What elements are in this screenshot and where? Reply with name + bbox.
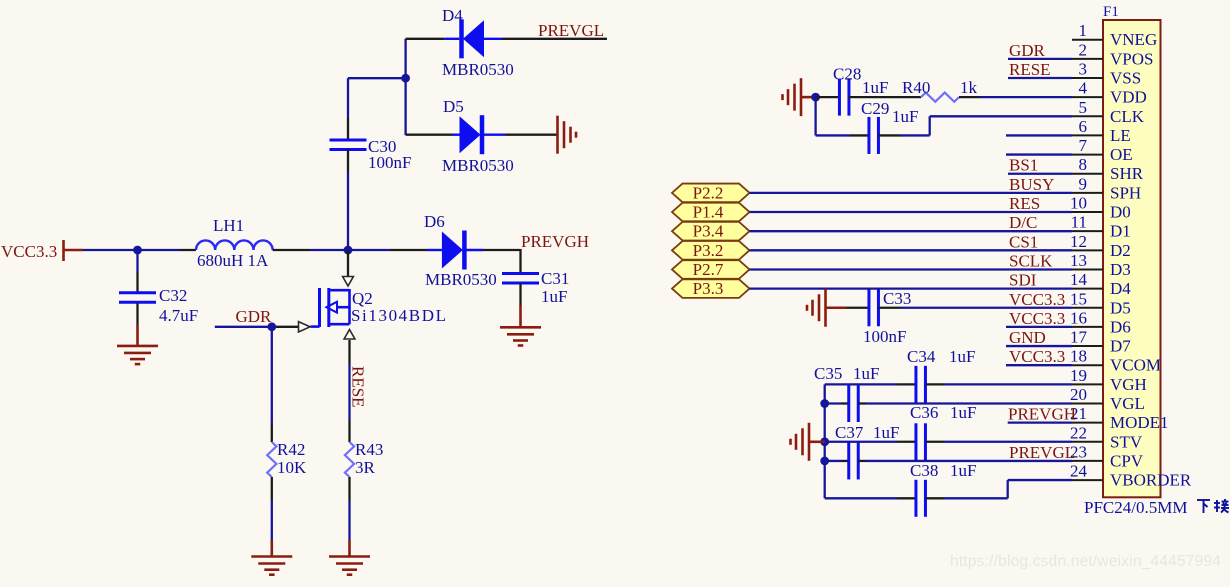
svg-text:680uH 1A: 680uH 1A <box>197 251 269 270</box>
svg-text:GDR: GDR <box>1009 41 1046 60</box>
svg-text:1uF: 1uF <box>862 78 888 97</box>
svg-text:13: 13 <box>1070 251 1087 270</box>
svg-text:24: 24 <box>1070 462 1088 481</box>
svg-text:10K: 10K <box>277 458 307 477</box>
svg-text:6: 6 <box>1079 117 1088 136</box>
svg-text:7: 7 <box>1079 136 1088 155</box>
svg-text:5: 5 <box>1079 98 1088 117</box>
svg-text:VBORDER: VBORDER <box>1110 471 1192 490</box>
svg-text:D6: D6 <box>424 212 445 231</box>
svg-text:D5: D5 <box>443 97 464 116</box>
svg-text:C29: C29 <box>861 99 889 118</box>
svg-text:LE: LE <box>1110 126 1131 145</box>
svg-text:VCC3.3: VCC3.3 <box>1009 309 1065 328</box>
svg-text:SHR: SHR <box>1110 164 1144 183</box>
svg-text:C36: C36 <box>910 403 938 422</box>
svg-text:1k: 1k <box>960 78 978 97</box>
svg-text:CLK: CLK <box>1110 107 1145 126</box>
svg-text:CS1: CS1 <box>1009 232 1038 251</box>
svg-text:VCC3.3: VCC3.3 <box>1009 290 1065 309</box>
svg-text:1uF: 1uF <box>950 403 976 422</box>
svg-text:MODE1: MODE1 <box>1110 413 1169 432</box>
svg-text:VCC3.3: VCC3.3 <box>1009 347 1065 366</box>
svg-text:MBR0530: MBR0530 <box>442 60 514 79</box>
svg-text:MBR0530: MBR0530 <box>442 156 514 175</box>
svg-text:D1: D1 <box>1110 222 1131 241</box>
svg-text:RESE: RESE <box>1009 60 1051 79</box>
svg-text:C32: C32 <box>159 286 187 305</box>
svg-text:PREVGH: PREVGH <box>521 232 589 251</box>
svg-text:D0: D0 <box>1110 203 1131 222</box>
svg-text:SDI: SDI <box>1009 271 1037 290</box>
svg-text:F1: F1 <box>1103 4 1119 20</box>
svg-text:14: 14 <box>1070 270 1088 289</box>
svg-text:C38: C38 <box>910 461 938 480</box>
svg-text:15: 15 <box>1070 289 1087 308</box>
svg-text:P3.4: P3.4 <box>693 222 724 241</box>
svg-text:4: 4 <box>1079 79 1088 98</box>
svg-text:R40: R40 <box>902 78 930 97</box>
svg-text:C33: C33 <box>883 289 911 308</box>
svg-text:C34: C34 <box>907 347 936 366</box>
svg-text:100nF: 100nF <box>368 153 411 172</box>
svg-text:1uF: 1uF <box>873 423 899 442</box>
svg-text:P1.4: P1.4 <box>693 203 724 222</box>
svg-text:D6: D6 <box>1110 317 1131 336</box>
svg-text:C31: C31 <box>541 269 569 288</box>
svg-text:VGL: VGL <box>1110 394 1145 413</box>
svg-text:SCLK: SCLK <box>1009 251 1053 270</box>
svg-text:VCC3.3: VCC3.3 <box>1 242 57 261</box>
svg-text:P2.7: P2.7 <box>693 260 724 279</box>
svg-text:12: 12 <box>1070 232 1087 251</box>
svg-text:1uF: 1uF <box>853 364 879 383</box>
svg-text:3R: 3R <box>355 458 376 477</box>
svg-text:22: 22 <box>1070 423 1087 442</box>
svg-text:C35: C35 <box>814 364 842 383</box>
svg-text:1uF: 1uF <box>541 287 567 306</box>
svg-text:17: 17 <box>1070 328 1088 347</box>
svg-text:9: 9 <box>1079 174 1088 193</box>
svg-text:1uF: 1uF <box>949 347 975 366</box>
svg-text:PREVGL: PREVGL <box>538 21 604 40</box>
svg-text:Si1304BDL: Si1304BDL <box>351 306 448 325</box>
svg-text:1uF: 1uF <box>892 107 918 126</box>
svg-text:10: 10 <box>1070 194 1087 213</box>
svg-text:PREVGH: PREVGH <box>1008 405 1076 424</box>
svg-text:GND: GND <box>1009 328 1046 347</box>
svg-text:P3.3: P3.3 <box>693 279 724 298</box>
svg-text:P2.2: P2.2 <box>693 183 724 202</box>
svg-text:4.7uF: 4.7uF <box>159 306 198 325</box>
svg-text:D7: D7 <box>1110 337 1131 356</box>
svg-text:D5: D5 <box>1110 298 1131 317</box>
svg-text:C37: C37 <box>835 423 864 442</box>
svg-text:16: 16 <box>1070 308 1087 327</box>
svg-text:1uF: 1uF <box>950 461 976 480</box>
svg-text:VGH: VGH <box>1110 375 1147 394</box>
svg-text:PREVGL: PREVGL <box>1009 443 1075 462</box>
svg-text:100nF: 100nF <box>863 327 906 346</box>
svg-text:2: 2 <box>1079 40 1088 59</box>
svg-text:MBR0530: MBR0530 <box>425 270 497 289</box>
svg-text:D3: D3 <box>1110 260 1131 279</box>
svg-text:R43: R43 <box>355 440 383 459</box>
svg-text:https://blog.csdn.net/weixin_4: https://blog.csdn.net/weixin_44457994 <box>950 553 1221 570</box>
svg-text:20: 20 <box>1070 385 1087 404</box>
svg-text:P3.2: P3.2 <box>693 241 724 260</box>
svg-text:BS1: BS1 <box>1009 156 1038 175</box>
svg-text:SPH: SPH <box>1110 183 1141 202</box>
svg-text:RES: RES <box>1009 194 1040 213</box>
svg-text:PFC24/0.5MM: PFC24/0.5MM <box>1084 498 1187 517</box>
svg-text:8: 8 <box>1079 155 1088 174</box>
svg-text:VNEG: VNEG <box>1110 30 1157 49</box>
svg-text:18: 18 <box>1070 347 1087 366</box>
svg-text:D/C: D/C <box>1009 213 1037 232</box>
svg-text:VPOS: VPOS <box>1110 49 1153 68</box>
svg-text:CPV: CPV <box>1110 451 1144 470</box>
svg-text:1: 1 <box>1079 21 1088 40</box>
svg-text:C28: C28 <box>833 65 861 84</box>
svg-text:LH1: LH1 <box>213 216 244 235</box>
svg-text:D4: D4 <box>442 6 463 25</box>
svg-text:GDR: GDR <box>236 307 273 326</box>
svg-text:D4: D4 <box>1110 279 1131 298</box>
svg-text:VDD: VDD <box>1110 88 1147 107</box>
svg-text:VCOM: VCOM <box>1110 356 1161 375</box>
svg-text:BUSY: BUSY <box>1009 175 1054 194</box>
svg-text:11: 11 <box>1071 213 1087 232</box>
svg-text:RESE: RESE <box>349 366 368 408</box>
svg-text:D2: D2 <box>1110 241 1131 260</box>
svg-text:OE: OE <box>1110 145 1133 164</box>
svg-text:19: 19 <box>1070 366 1087 385</box>
svg-text:R42: R42 <box>277 440 305 459</box>
svg-text:STV: STV <box>1110 432 1143 451</box>
svg-text:VSS: VSS <box>1110 68 1141 87</box>
svg-text:3: 3 <box>1079 59 1088 78</box>
